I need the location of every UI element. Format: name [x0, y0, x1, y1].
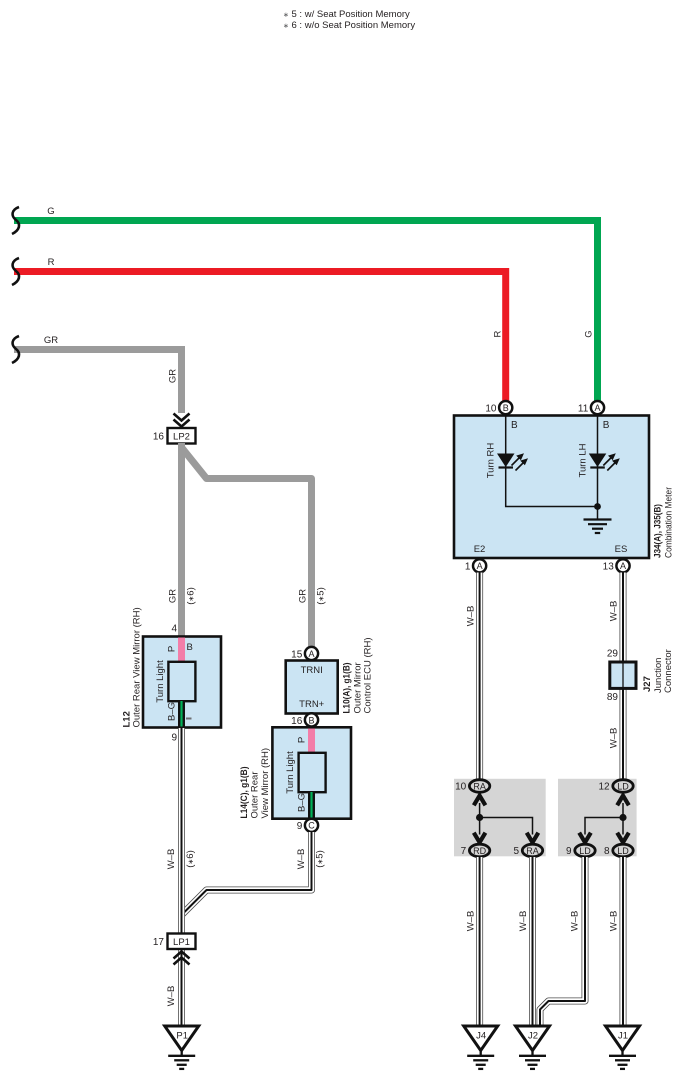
- svg-text:Combination Meter: Combination Meter: [664, 487, 675, 558]
- svg-text:Outer Rear: Outer Rear: [250, 772, 261, 819]
- svg-text:9: 9: [566, 846, 572, 857]
- LED Turn LH: [589, 453, 620, 470]
- svg-text:GR: GR: [44, 335, 58, 346]
- svg-text:C: C: [308, 821, 315, 831]
- svg-text:(∗6): (∗6): [186, 587, 197, 605]
- pin 1 A circle (E2): [473, 559, 486, 572]
- svg-text:29: 29: [607, 649, 619, 660]
- svg-text:Control ECU (RH): Control ECU (RH): [363, 637, 374, 713]
- svg-text:R: R: [48, 257, 55, 268]
- svg-text:B: B: [503, 403, 509, 413]
- svg-text:W–B: W–B: [466, 911, 477, 932]
- svg-text:J4: J4: [476, 1031, 486, 1042]
- svg-text:89: 89: [607, 692, 619, 703]
- svg-text:Outer Rear View Mirror (RH): Outer Rear View Mirror (RH): [132, 607, 143, 727]
- meter internal wire from pin 11 through Turn LH LED to ground: [597, 415, 599, 519]
- svg-text:W–B: W–B: [518, 911, 529, 932]
- wire GR from LP2 down to L12 pin 4: [178, 443, 185, 637]
- svg-text:16: 16: [153, 432, 165, 443]
- L14 outer rear view mirror box: [272, 727, 351, 818]
- ground symbol below P1: [168, 1051, 195, 1069]
- svg-text:(∗5): (∗5): [315, 850, 326, 868]
- wire B-G inside L14: [308, 792, 315, 818]
- svg-text:ES: ES: [615, 544, 628, 555]
- svg-text:12: 12: [598, 782, 610, 793]
- pin 12 LD oval: [613, 780, 633, 793]
- dash mark right of B-G wire: [186, 718, 192, 720]
- svg-text:9: 9: [297, 821, 303, 832]
- svg-text:W–B: W–B: [466, 606, 477, 627]
- svg-text:W–B: W–B: [166, 849, 177, 870]
- svg-text:∗ 5 : w/ Seat Position Memory: ∗ 5 : w/ Seat Position Memory: [283, 9, 410, 20]
- outer mirror control ECU box (TRNI / TRN+): [286, 661, 338, 714]
- svg-text:GR: GR: [298, 589, 309, 603]
- svg-text:B: B: [603, 420, 610, 431]
- svg-text:16: 16: [291, 716, 303, 727]
- wire break squiggle on G wire: [12, 207, 19, 234]
- svg-text:P: P: [297, 737, 308, 743]
- svg-text:R: R: [493, 330, 504, 337]
- combination meter box J34(A), J35(B): [454, 416, 649, 559]
- junction dot right block: [619, 814, 626, 821]
- svg-text:7: 7: [461, 846, 467, 857]
- svg-text:GR: GR: [168, 369, 179, 383]
- svg-text:4: 4: [171, 624, 177, 635]
- pin 10 B circle of meter: [499, 401, 512, 414]
- ground point J4 triangle: [464, 1026, 498, 1051]
- svg-text:G: G: [47, 206, 54, 217]
- down arrow into pin 8 LD: [617, 833, 629, 843]
- svg-text:W–B: W–B: [166, 986, 177, 1007]
- pin 7 RD oval: [469, 844, 489, 857]
- svg-text:LP2: LP2: [173, 432, 190, 443]
- svg-text:E2: E2: [474, 544, 486, 555]
- svg-text:17: 17: [153, 937, 165, 948]
- svg-text:RA: RA: [526, 846, 539, 856]
- svg-text:15: 15: [291, 650, 303, 661]
- svg-text:GR: GR: [168, 589, 179, 603]
- wire B-G (black w/ green stripe) inside L12: [178, 701, 185, 727]
- svg-text:Turn Light: Turn Light: [285, 751, 296, 794]
- up arrow into pin 10 RA: [474, 796, 486, 806]
- wire G (green) from connector break to combination meter pin 11: [14, 221, 598, 402]
- svg-text:LD: LD: [617, 846, 629, 856]
- pin 10 RA oval: [469, 780, 489, 793]
- svg-text:B: B: [511, 420, 518, 431]
- svg-text:J27: J27: [642, 676, 653, 692]
- svg-text:LP1: LP1: [173, 937, 190, 948]
- wire GR (gray) from connector break to LP2: [14, 350, 182, 414]
- connector LP2 (pin 16): [168, 428, 196, 444]
- up arrow into pin 12 LD: [617, 796, 629, 806]
- svg-text:W–B: W–B: [609, 911, 620, 932]
- svg-text:Turn Light: Turn Light: [155, 660, 166, 703]
- svg-text:B–G: B–G: [297, 793, 308, 812]
- wire P (pink) inside L12: [178, 638, 185, 664]
- turn light bulb box inside L12: [168, 662, 195, 701]
- svg-text:10: 10: [455, 782, 467, 793]
- svg-text:A: A: [308, 649, 314, 659]
- svg-text:J34(A), J35(B): J34(A), J35(B): [653, 504, 664, 558]
- svg-text:B–G: B–G: [167, 702, 178, 721]
- svg-text:L14(C), g1(B): L14(C), g1(B): [239, 767, 250, 819]
- ground symbol inside meter: [584, 520, 612, 534]
- svg-text:A: A: [620, 561, 626, 571]
- ground symbol below J1: [609, 1051, 636, 1069]
- svg-text:P: P: [167, 646, 178, 652]
- svg-text:TRNI: TRNI: [301, 665, 323, 676]
- svg-text:B: B: [187, 642, 193, 653]
- svg-text:∗ 6 : w/o Seat Position Memory: ∗ 6 : w/o Seat Position Memory: [283, 20, 415, 31]
- svg-text:1: 1: [465, 562, 471, 573]
- down arrow into pin 9 LD: [579, 833, 591, 843]
- svg-text:Connector: Connector: [663, 649, 674, 693]
- pin 15 A circle of ECU: [305, 647, 318, 660]
- wire break squiggle on GR wire: [12, 336, 19, 363]
- turn light bulb box inside L14: [299, 753, 326, 792]
- pin 5 RA oval: [522, 844, 542, 857]
- down arrow into pin 5 RA: [527, 833, 539, 843]
- svg-text:J1: J1: [618, 1031, 628, 1042]
- svg-text:L10(A), g1(B): L10(A), g1(B): [342, 663, 353, 714]
- pin 13 A circle (ES): [616, 559, 629, 572]
- svg-text:RD: RD: [473, 846, 486, 856]
- wire P (pink) inside L14: [308, 729, 315, 755]
- svg-text:9: 9: [171, 733, 177, 744]
- svg-text:W–B: W–B: [296, 849, 307, 870]
- svg-text:8: 8: [604, 846, 610, 857]
- L12 outer rear view mirror box: [143, 637, 221, 728]
- svg-text:11: 11: [578, 404, 589, 415]
- right block internal wiring from LD to LD pins: [585, 803, 623, 835]
- svg-text:LD: LD: [579, 846, 591, 856]
- svg-text:Turn LH: Turn LH: [577, 443, 588, 477]
- svg-text:W–B: W–B: [609, 601, 620, 622]
- svg-text:W–B: W–B: [570, 911, 581, 932]
- ground point J1 triangle: [606, 1026, 640, 1051]
- svg-text:10: 10: [485, 404, 497, 415]
- meter internal wire from pin 10 through Turn RH LED to common: [506, 415, 598, 507]
- svg-text:13: 13: [603, 562, 615, 573]
- svg-text:LD: LD: [617, 781, 629, 791]
- left block internal wiring from RA to RD and RA: [480, 803, 533, 835]
- pin 9 C circle of L14: [305, 819, 318, 832]
- svg-text:B: B: [308, 715, 314, 725]
- double chevron (in-line connector arrow) above LP2: [174, 414, 190, 427]
- svg-text:(∗5): (∗5): [316, 587, 327, 605]
- wire break squiggle on R wire: [12, 258, 19, 285]
- pin 8 LD oval: [613, 844, 633, 857]
- double chevron (in-line connector arrow) below LP1: [174, 952, 190, 965]
- svg-text:RA: RA: [473, 781, 486, 791]
- down arrow into pin 7 RD: [474, 833, 486, 843]
- pin 9 LD oval: [575, 844, 595, 857]
- pin 11 A circle of meter: [591, 401, 604, 414]
- LED Turn RH: [497, 453, 528, 470]
- connector LP1 (pin 17): [168, 934, 196, 950]
- ground symbol below J4: [467, 1051, 494, 1069]
- svg-text:Turn RH: Turn RH: [486, 443, 497, 479]
- ground symbol below J2: [519, 1051, 546, 1069]
- svg-text:A: A: [477, 561, 483, 571]
- svg-text:G: G: [584, 330, 595, 337]
- svg-text:P1: P1: [176, 1031, 188, 1042]
- svg-text:A: A: [594, 403, 600, 413]
- relay block left (shaded): [454, 779, 546, 857]
- svg-text:(∗6): (∗6): [185, 850, 196, 868]
- svg-text:View Mirror (RH): View Mirror (RH): [260, 748, 271, 819]
- junction connector J27: [610, 662, 636, 688]
- ground point P1 triangle: [165, 1026, 199, 1051]
- wire R (red) from connector break to combination meter pin 10: [14, 272, 506, 402]
- svg-text:J2: J2: [528, 1031, 538, 1042]
- svg-text:W–B: W–B: [609, 728, 620, 749]
- relay block right (shaded): [558, 779, 637, 857]
- svg-text:TRN+: TRN+: [299, 699, 325, 710]
- ground point J2 triangle: [516, 1026, 550, 1051]
- pin 16 B circle of ECU: [305, 713, 318, 726]
- svg-text:5: 5: [514, 846, 520, 857]
- wire GR branch from LP2 to outer mirror control ECU pin 15: [182, 448, 312, 648]
- junction dot at meter common: [594, 503, 601, 510]
- junction dot left block: [476, 814, 483, 821]
